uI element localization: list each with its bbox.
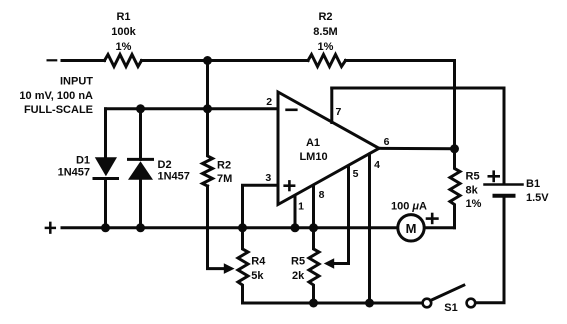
svg-text:B1: B1 — [526, 178, 540, 190]
battery plus sign — [489, 175, 499, 178]
wire meter to R5 8k — [425, 226, 455, 229]
svg-text:1%: 1% — [116, 41, 132, 53]
svg-text:R4: R4 — [251, 256, 266, 268]
svg-text:3: 3 — [265, 172, 271, 184]
pin 4 stub — [368, 154, 371, 303]
wire top rail middle — [142, 59, 309, 62]
svg-text:4: 4 — [374, 159, 380, 171]
svg-text:1N457: 1N457 — [158, 171, 190, 183]
node pin8/R5 plus rail — [309, 223, 318, 232]
svg-text:8k: 8k — [466, 185, 479, 197]
svg-text:LM10: LM10 — [299, 151, 327, 163]
svg-text:10 mV, 100 nA: 10 mV, 100 nA — [19, 90, 93, 102]
op-amp plus symbol — [285, 184, 294, 187]
svg-text:R2: R2 — [318, 11, 332, 23]
svg-text:7M: 7M — [217, 173, 232, 185]
svg-text:R5: R5 — [466, 171, 480, 183]
resistor R5 2k — [309, 228, 319, 303]
pin 8 stub — [312, 186, 315, 228]
battery B1 top plate — [485, 183, 523, 186]
svg-text:1.5V: 1.5V — [526, 192, 549, 204]
svg-text:FULL-SCALE: FULL-SCALE — [24, 104, 93, 116]
svg-text:8: 8 — [319, 189, 325, 201]
wire vertical input to summing rail — [206, 61, 209, 109]
node pin3/R4 plus rail — [238, 223, 247, 232]
resistor R5 8k — [450, 149, 460, 228]
switch S1 — [423, 299, 432, 308]
meter plus sign — [427, 217, 437, 220]
feedback wire pin7 to battery top — [332, 88, 504, 183]
pin 3 wire — [243, 185, 279, 228]
svg-text:5k: 5k — [251, 270, 264, 282]
wire top rail right — [346, 61, 455, 149]
svg-text:R5: R5 — [291, 256, 305, 268]
resistor R4 5k — [238, 228, 248, 303]
svg-text:A1: A1 — [306, 137, 320, 149]
meter circle — [398, 215, 424, 241]
wire D1 top — [104, 109, 107, 158]
node pin4 bottom rail — [365, 299, 374, 308]
svg-text:100k: 100k — [111, 26, 136, 38]
svg-text:INPUT: INPUT — [60, 76, 93, 88]
node summing D2 — [136, 104, 145, 113]
wire top rail left — [62, 59, 105, 62]
svg-text:1%: 1% — [318, 41, 334, 53]
minus input terminal — [48, 59, 57, 61]
svg-text:D2: D2 — [158, 159, 172, 171]
svg-text:2: 2 — [266, 96, 272, 108]
svg-text:7: 7 — [335, 106, 341, 118]
svg-text:M: M — [406, 221, 417, 236]
svg-text:5: 5 — [353, 168, 359, 180]
diode D1 — [95, 157, 117, 176]
svg-text:1: 1 — [298, 201, 304, 213]
svg-text:1N457: 1N457 — [58, 167, 90, 179]
svg-text:S1: S1 — [444, 302, 457, 314]
R4 wiper arrowhead — [224, 263, 235, 274]
svg-text:6: 6 — [384, 136, 390, 148]
resistor R2 8.5M — [308, 55, 346, 67]
node R5 2k bottom rail — [309, 299, 318, 308]
bottom rail — [243, 302, 423, 305]
svg-text:R1: R1 — [116, 11, 130, 23]
resistor R2 7M — [203, 109, 213, 186]
wire D2 top — [139, 109, 142, 160]
wire summing rail — [106, 107, 279, 110]
svg-text:D1: D1 — [76, 155, 90, 167]
node D1 plus rail — [101, 223, 110, 232]
op-amp minus symbol — [287, 109, 297, 112]
node output junction — [450, 144, 459, 153]
svg-text:2k: 2k — [292, 270, 305, 282]
node input junction — [203, 56, 212, 65]
wire D1 bottom — [104, 179, 107, 228]
node summing R2 7M — [203, 104, 212, 113]
svg-text:R2: R2 — [217, 160, 231, 172]
pin 7 stub — [330, 88, 333, 123]
node pin1 plus rail — [291, 223, 300, 232]
svg-text:100 μA: 100 μA — [391, 201, 427, 213]
plus input terminal — [46, 227, 55, 230]
op-amp A1 — [278, 92, 379, 205]
wire D2 bottom — [139, 180, 142, 228]
svg-text:8.5M: 8.5M — [313, 26, 337, 38]
R5 2k wiper arrowhead — [324, 258, 334, 269]
wire switch to battery bottom — [476, 198, 505, 303]
svg-text:1%: 1% — [466, 198, 482, 210]
pin 5 stub and wiper wire — [334, 166, 349, 264]
node D2 plus rail — [136, 223, 145, 232]
battery B1 bottom plate — [495, 194, 514, 198]
resistor R1 — [105, 55, 142, 67]
diode D2 — [129, 158, 153, 161]
pin 1 stub — [294, 196, 297, 228]
plus rail — [62, 226, 398, 229]
wire R2 7M to R4 wiper — [208, 186, 226, 269]
pin 6 output wire — [379, 147, 455, 151]
